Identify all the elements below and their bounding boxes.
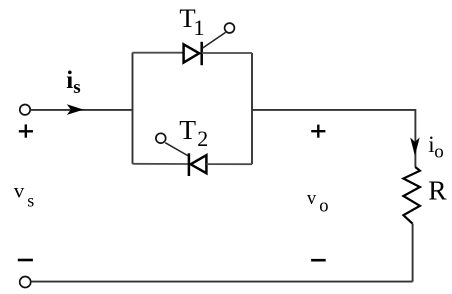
thyristor T1 gate lead [202, 32, 225, 48]
svg-text:1: 1 [193, 15, 204, 40]
wire: right vertical below resistor to bottom return [412, 224, 414, 282]
label: + (output polarity) [311, 125, 325, 138]
wire: bridge left vertical [132, 53, 134, 164]
svg-text:s: s [73, 77, 80, 98]
svg-text:o: o [434, 142, 444, 163]
svg-text:o: o [319, 197, 328, 217]
label: − (output polarity) [311, 259, 326, 262]
thyristor T2 gate lead [165, 143, 188, 156]
thyristor T2 cathode bar [188, 153, 191, 176]
svg-text:R: R [428, 174, 447, 205]
label: − (source polarity, left) [18, 259, 33, 262]
wire: bridge right vertical [251, 53, 253, 164]
node: source positive terminal (open circle) [20, 105, 30, 115]
wire: bottom branch left segment [133, 163, 189, 165]
svg-text:i: i [66, 67, 73, 94]
wire: top-right from bridge to load [252, 109, 415, 111]
resistor R (zigzag) [403, 167, 420, 224]
current arrow i_s (arrowhead on top-left wire) [67, 104, 84, 115]
svg-text:s: s [27, 191, 34, 211]
thyristor T2 gate terminal (open circle) [156, 133, 166, 143]
wire: top-left from terminal to bridge left [30, 109, 132, 111]
svg-text:2: 2 [197, 126, 208, 151]
current arrow i_o (arrowhead on right vertical wire) [410, 137, 420, 156]
thyristor T2 anode triangle [191, 155, 207, 173]
svg-text:v: v [307, 189, 317, 209]
wire: bottom return from negative terminal to load [31, 281, 413, 283]
svg-text:T: T [179, 114, 196, 145]
svg-text:v: v [14, 179, 25, 203]
wire: right vertical down to resistor [414, 109, 416, 167]
wire: top branch left segment [133, 52, 185, 54]
thyristor T1 gate terminal (open circle) [225, 23, 235, 33]
wire: bottom branch right segment [206, 163, 252, 165]
thyristor T1 anode triangle [184, 44, 200, 62]
node: source negative terminal (open circle) [20, 277, 31, 288]
wire: top branch right segment [202, 52, 252, 54]
thyristor T1 cathode bar [200, 42, 203, 65]
label: + (source polarity, left) [19, 124, 33, 137]
